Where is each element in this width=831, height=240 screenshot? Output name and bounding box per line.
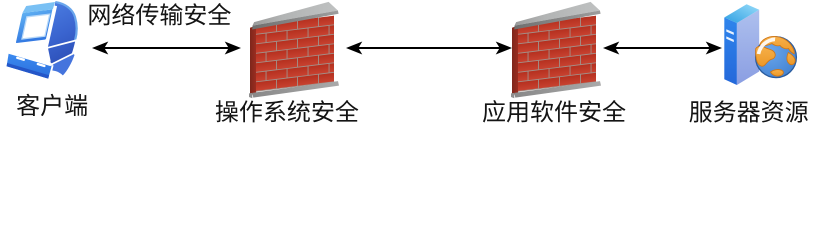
monitor screen [22, 14, 50, 39]
shell separation line 1 [38, 40, 78, 50]
firewall 2 (brick wall) [511, 2, 601, 98]
tower slot dash 2 [726, 36, 734, 42]
gap between base and side wedge [49, 65, 52, 79]
drive slot dash 1 [16, 56, 25, 61]
monitor back shell [41, 2, 77, 76]
monitor bezel [16, 9, 53, 43]
label 客户端 [17, 94, 87, 116]
globe land right blob [787, 53, 795, 65]
globe land bottom blob [771, 70, 784, 77]
double arrow A3 firewall2-server [603, 42, 722, 55]
gap between monitor and base [8, 40, 50, 62]
globe land left blob [756, 46, 776, 66]
globe ocean [756, 37, 797, 78]
label 网络传输安全 [90, 3, 231, 25]
tower front face [724, 18, 737, 86]
drive slot dash 2 [36, 63, 45, 68]
label 操作系统安全 [216, 100, 359, 122]
client computer icon [7, 2, 78, 80]
tower top face [724, 4, 759, 23]
shell lower light wedge [42, 54, 75, 76]
tower side face [737, 10, 759, 85]
tower slot dash 1 [726, 29, 734, 35]
globe land top band with right rim extension [760, 36, 794, 53]
label 应用软件安全 [483, 100, 626, 123]
double arrow A2 firewall1-firewall2 [346, 42, 512, 55]
monitor top band [22, 2, 55, 13]
server tower icon [724, 4, 796, 85]
system unit front [7, 54, 52, 79]
double arrow A1 client-firewall1 [92, 42, 241, 55]
shell separation line 2 [42, 53, 74, 69]
label 服务器资源 [689, 100, 807, 122]
gap between monitor and shell [46, 6, 56, 49]
system unit bottom strip [7, 63, 50, 79]
globe gloss crescent [757, 37, 776, 54]
shell top rim highlight [56, 2, 77, 40]
firewall 1 (brick wall) [249, 2, 339, 98]
